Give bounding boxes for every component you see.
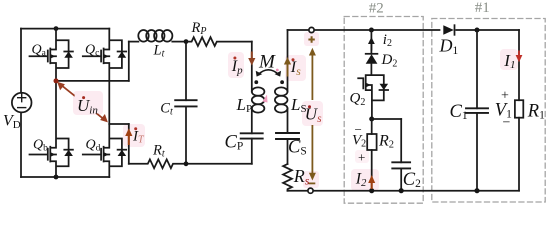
svg-text:#1: #1 [475, 0, 490, 16]
transistor Qa [30, 29, 73, 81]
wire: Q2 source to junction [371, 100, 373, 119]
svg-text:V2: V2 [352, 133, 366, 150]
node: C1 bottom [474, 188, 479, 193]
current arrow I1 [503, 51, 522, 72]
wire: tank feed vertical [128, 42, 130, 81]
svg-text:Lt: Lt [153, 43, 165, 60]
polarity dot LP [254, 80, 258, 84]
node: R2 bottom [369, 188, 374, 193]
wire: bridge bottom rail [21, 176, 109, 178]
capacitor Ct [175, 42, 196, 164]
svg-text:+: + [358, 150, 365, 165]
node: i2 branch top [369, 28, 374, 33]
terminal: bottom port circle [308, 188, 313, 193]
svg-text:CS: CS [288, 137, 307, 157]
source VD [12, 93, 32, 113]
svg-text:D1: D1 [439, 36, 459, 57]
inductor LP [252, 87, 265, 133]
mutual inductance arrow M [256, 51, 281, 76]
diode D1 [443, 25, 519, 35]
voltage arrow Us [308, 36, 316, 183]
node: R2/C2 split [369, 117, 374, 122]
svg-text:Rs: Rs [293, 166, 310, 187]
svg-text:Rt: Rt [152, 142, 165, 159]
pink artifact [263, 95, 268, 103]
svg-text:VD: VD [3, 113, 21, 132]
resistor R1 (box) [515, 100, 523, 118]
wire: to R2 [371, 119, 373, 134]
transistor Qb [30, 81, 73, 177]
wire: R1 branch down [518, 30, 520, 100]
svg-text:R1: R1 [527, 101, 545, 121]
svg-text:LP: LP [236, 95, 253, 115]
node: C1 branch [475, 28, 480, 33]
resistor RP [186, 37, 252, 46]
wire: secondary lead down [287, 30, 289, 92]
node A junction [54, 78, 59, 83]
label Us [305, 105, 322, 126]
svg-text:R2: R2 [378, 132, 394, 150]
current arrow IS [284, 57, 301, 78]
node: bottom rail junction [54, 175, 59, 180]
svg-text:RP: RP [191, 20, 207, 37]
wire: D2 branch upper [370, 30, 372, 54]
polarity dot LS [280, 80, 284, 84]
resistor Rs [283, 164, 292, 191]
svg-text:Qb: Qb [33, 138, 48, 154]
node after Rt [184, 161, 189, 166]
label V1 with polarity [495, 89, 512, 131]
pink halos (jpeg tint) [73, 32, 518, 191]
node: C2 bottom [399, 188, 404, 193]
svg-text:Ct: Ct [160, 101, 173, 118]
capacitor CS [276, 133, 299, 164]
svg-text:Qc: Qc [85, 43, 99, 59]
inductor Lt [129, 30, 186, 42]
label Uin [75, 93, 102, 117]
svg-text:CP: CP [225, 132, 244, 152]
resistor R2 (box) [367, 134, 376, 150]
wire: R1 to bottom rail [518, 118, 520, 191]
wire: bridge top rail [21, 28, 109, 30]
wire: R2 to bottom [371, 150, 373, 191]
current arrow IT [125, 127, 145, 146]
current arrow i2 [368, 32, 392, 51]
svg-text:D2: D2 [381, 52, 398, 69]
resistor Rt [129, 159, 252, 168]
wire: node B to Rt vertical [128, 124, 130, 164]
current arrow Ip [231, 52, 256, 77]
svg-text:C2: C2 [403, 170, 421, 190]
svg-text:LS: LS [290, 95, 307, 115]
svg-text:#2: #2 [369, 0, 384, 16]
svg-text:−: − [503, 115, 511, 130]
svg-text:i2: i2 [383, 32, 392, 49]
svg-text:Qd: Qd [86, 138, 101, 154]
svg-text:C1: C1 [450, 102, 468, 122]
wire: node B horizontal [109, 123, 129, 125]
wire: node A horizontal [56, 80, 129, 82]
wire: primary top drop [251, 42, 253, 92]
dashed box #2 [344, 17, 423, 204]
transistor Qd [83, 124, 126, 177]
svg-text:Qa: Qa [32, 43, 47, 59]
current arrow I2 [355, 171, 375, 189]
current arrow Uin [57, 82, 108, 123]
wire: secondary top [288, 29, 440, 31]
svg-text:Q2: Q2 [350, 91, 366, 108]
capacitor CP [241, 133, 263, 164]
wire: C2 branch horizontal [372, 118, 402, 120]
wire: bridge left rail upper [20, 29, 22, 93]
capacitor C1 [466, 30, 488, 191]
transistor Q2 [358, 75, 388, 100]
node: top rail junction [54, 26, 59, 31]
capacitor C2 [392, 119, 410, 191]
terminal: top port circle [309, 27, 314, 32]
node after Lt [184, 39, 189, 44]
dashed box #1 [432, 19, 545, 203]
transistor Qc [83, 29, 126, 124]
wire: secondary bottom out [288, 190, 520, 192]
wire: bridge left rail lower [20, 112, 22, 177]
inductor LS [275, 87, 288, 133]
label V2 with polarity [352, 122, 366, 165]
diode D2 [366, 54, 378, 75]
